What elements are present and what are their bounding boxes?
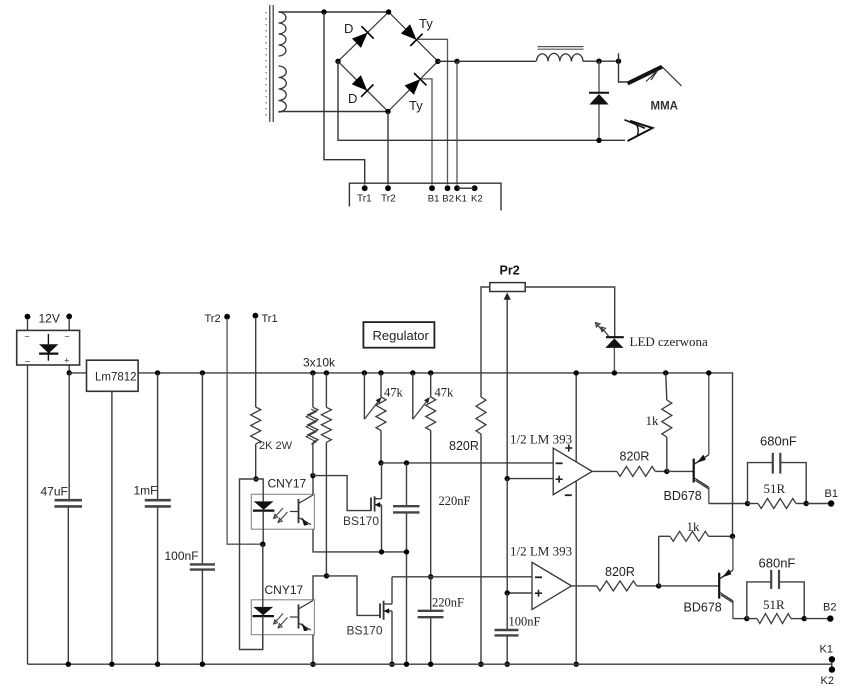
wire bridge-right to junction — [438, 60, 457, 62]
node U4 collector — [324, 573, 329, 578]
node bridge left — [335, 59, 340, 64]
wire U1A vplus — [575, 373, 577, 462]
svg-text:CNY17: CNY17 — [265, 583, 304, 597]
wire R7 to base node — [655, 470, 667, 472]
resistor R12 51R — [747, 614, 804, 624]
label B1 — [825, 488, 838, 500]
diode D2 — [352, 75, 374, 97]
svg-text:3x10k: 3x10k — [303, 356, 336, 370]
label LED czerwona — [630, 334, 709, 349]
wire U1B plus input — [507, 592, 532, 594]
wire 10k-1 bottom lead — [312, 442, 314, 475]
wire Pr2 wiper — [504, 293, 511, 479]
label 1k R8 — [646, 413, 660, 428]
wire K1-K2 link — [457, 187, 475, 189]
label CNY17 U4 — [265, 583, 304, 597]
resistor R6 820R — [476, 397, 486, 434]
node snubber1 left — [745, 501, 750, 506]
label 12V — [39, 312, 60, 326]
wire junction to Tr1 terminal — [324, 12, 365, 185]
wire 10k-1 top lead — [312, 373, 314, 407]
wire Ty2 gate to B1 — [421, 79, 432, 185]
label 820R R7 — [620, 450, 650, 464]
label 680nF C6 — [760, 434, 797, 449]
label Lm7812 — [95, 372, 137, 384]
regulator U2 Lm7812 box — [87, 360, 139, 391]
svg-text:220nF: 220nF — [432, 596, 464, 610]
regulator label box — [363, 322, 434, 348]
svg-text:B2: B2 — [442, 194, 454, 205]
label 1k R11 — [687, 519, 701, 534]
resistor R11 1k — [659, 531, 733, 541]
terminal K1 node — [454, 185, 460, 191]
diode D3 freewheel — [589, 61, 609, 140]
node output junction — [454, 59, 459, 64]
LED inside U3 — [253, 479, 275, 544]
wire bridge arm left-bottom — [338, 61, 388, 111]
svg-text:47k: 47k — [435, 386, 455, 400]
light arrows U4 — [274, 614, 288, 629]
node C7 ground — [505, 662, 510, 667]
node R6 ground — [478, 662, 483, 667]
wire R1 to node A — [255, 444, 257, 479]
node Q1 emitter rail — [706, 370, 711, 375]
svg-text:B1: B1 — [428, 194, 440, 205]
wire K1-K2 stub — [831, 657, 833, 671]
node ground 47uF — [66, 662, 71, 667]
wire M2 drain — [391, 577, 393, 604]
wire to Lm7812 input — [69, 372, 86, 374]
wire 47k-2 wiper — [412, 373, 414, 419]
node minus net 1 — [378, 460, 383, 465]
capacitor C4 220nF — [393, 463, 420, 664]
potentiometer Pr2 body — [490, 283, 525, 292]
capacitor C3 100nF — [190, 373, 215, 664]
svg-text:MMA: MMA — [651, 101, 678, 113]
wire U4 emitter down — [312, 635, 314, 665]
label K1 — [820, 644, 833, 656]
inductor L1 — [537, 47, 584, 62]
svg-text:D: D — [348, 91, 357, 106]
node Q2 base — [656, 583, 661, 588]
node snubber2 right — [802, 616, 807, 621]
resistor R2 10k — [306, 407, 318, 444]
terminal B2 node — [445, 185, 451, 191]
LED D4 czerwona — [596, 323, 624, 373]
label minus input U1B — [535, 576, 542, 578]
node module plus junction — [67, 370, 72, 375]
svg-text:Tr2: Tr2 — [381, 194, 396, 205]
node LED rail — [612, 370, 617, 375]
node top-left junction — [321, 9, 326, 14]
wire node A loop left-down — [240, 479, 263, 650]
node M1 source — [379, 549, 384, 554]
label terminal K2 — [471, 194, 483, 205]
resistor R8 1k — [662, 400, 672, 437]
resistor R4 47k — [376, 397, 386, 431]
wire U1B output — [572, 585, 597, 587]
svg-text:K2: K2 — [471, 194, 483, 205]
label MMA — [651, 101, 678, 113]
node 12V input left — [25, 314, 31, 320]
phototransistor U4 — [290, 601, 313, 632]
label terminal B1 — [428, 194, 440, 205]
wire 10k-2 top lead — [325, 373, 327, 407]
wire U3 collector up — [312, 476, 314, 495]
label BS170 M1 — [343, 514, 379, 528]
optocoupler U3 CNY17 box — [251, 494, 314, 529]
label 220nF C4 — [439, 494, 471, 508]
node B opto mid — [260, 542, 265, 547]
svg-text:47k: 47k — [384, 386, 404, 400]
node minus net 2 — [428, 574, 433, 579]
node U3 collector — [310, 473, 315, 478]
op-amp U1B 1/2 LM393 — [532, 562, 572, 609]
label 3x10k — [303, 356, 336, 370]
node electrode junction — [616, 59, 621, 64]
node A opto input — [253, 476, 258, 481]
capacitor C8 680nF — [747, 570, 804, 619]
label CNY17 U3 — [268, 477, 307, 491]
svg-text:B1: B1 — [825, 488, 838, 500]
wire M1 source — [381, 505, 383, 552]
svg-text:K2: K2 — [821, 675, 834, 686]
capacitor C2 1mF — [145, 373, 171, 664]
transformer T1 secondary — [266, 5, 286, 122]
svg-text:–: – — [25, 356, 30, 366]
wire junction to K1 terminal — [456, 61, 458, 184]
wire 12V stubs — [28, 319, 70, 331]
resistor R10 820R — [597, 581, 637, 591]
label + plus — [64, 356, 70, 367]
node rail 1mF — [155, 370, 160, 375]
node rail 47k-2 — [428, 370, 433, 375]
label Ty1 — [419, 16, 433, 31]
wire module minus to ground rail — [27, 365, 29, 664]
svg-text:220nF: 220nF — [439, 494, 471, 508]
resistor R3 10k — [321, 407, 331, 442]
label plus input U1B — [535, 590, 542, 597]
node bridge right — [435, 59, 440, 64]
resistor R5 47k — [426, 397, 436, 431]
label K2 — [821, 675, 834, 686]
label plus power U1A — [565, 445, 572, 452]
rectifier module box — [17, 330, 80, 365]
wire Q2 collector out — [733, 618, 747, 620]
node M2 source ground — [389, 662, 394, 667]
label plus input U1A — [556, 476, 563, 483]
wire M1 drain — [381, 463, 383, 499]
node output B1 — [828, 500, 834, 506]
op-amp U1A 1/2 LM393 — [553, 448, 592, 495]
node bridge bottom — [385, 109, 390, 114]
svg-text:1k: 1k — [646, 413, 660, 428]
svg-text:100nF: 100nF — [509, 615, 541, 629]
diode inside rectifier module — [39, 334, 58, 361]
svg-text:~: ~ — [25, 332, 30, 342]
svg-text:47uF: 47uF — [41, 485, 68, 499]
svg-text:BS170: BS170 — [347, 624, 383, 638]
label 1/2 LM393 U1A — [510, 432, 572, 447]
node ground 100nF — [200, 662, 205, 667]
svg-text:K1: K1 — [455, 194, 467, 205]
node Tr1 input — [253, 313, 259, 319]
node output K1 — [829, 656, 835, 662]
svg-text:Ty: Ty — [419, 16, 433, 31]
wire 1k-2 left — [658, 536, 660, 586]
node 12V input right — [66, 314, 72, 320]
svg-text:2K 2W: 2K 2W — [259, 440, 293, 452]
label 820R R10 — [605, 565, 635, 579]
wire U1A vminus — [575, 482, 577, 665]
wire Q1 collector out — [709, 503, 748, 505]
wire bridge arm bottom-right — [388, 61, 438, 111]
LED inside U4 — [253, 544, 275, 649]
label 1mF — [134, 484, 158, 498]
label 2K 2W — [259, 440, 293, 452]
svg-text:1mF: 1mF — [134, 484, 158, 498]
svg-text:820R: 820R — [620, 450, 650, 464]
terminal Tr2 node — [385, 185, 391, 191]
wire 47k-2 top lead — [430, 373, 432, 397]
wire 47k-1 bottom lead — [380, 431, 382, 463]
label B2 — [823, 602, 836, 614]
label BS170 M2 — [347, 624, 383, 638]
wire bridge-left to lower electrode — [338, 61, 625, 140]
node Tr2-LED junction — [260, 542, 265, 547]
capacitor C7 100nF — [495, 593, 519, 664]
wire transformer-top to bridge — [279, 11, 389, 13]
svg-text:LED czerwona: LED czerwona — [630, 334, 709, 349]
wire Lm7812 ground pin — [111, 391, 113, 664]
node output K2 — [829, 666, 835, 672]
node Tr2 input — [224, 314, 230, 320]
wire to B1 — [806, 503, 831, 505]
svg-text:Tr1: Tr1 — [262, 313, 278, 325]
node rail 47k-2 wiper — [410, 370, 415, 375]
svg-text:D: D — [344, 21, 353, 36]
node U1A vminus ground — [574, 662, 579, 667]
label 47uF — [41, 485, 68, 499]
wire Ty1 gate to B2 — [418, 39, 448, 184]
label terminal Tr2 — [381, 194, 396, 205]
node snubber2 left — [744, 616, 749, 621]
terminal B1 node — [429, 185, 435, 191]
wire inductor to node — [583, 60, 619, 62]
label Tr2 input — [205, 313, 221, 325]
node rail end 1k-2 — [730, 534, 735, 539]
arrow 47k-1 wiper — [364, 397, 381, 419]
label 220nF C5 — [432, 596, 464, 610]
label Pr2 — [500, 264, 520, 278]
wire Tr2 down to LED junction — [227, 319, 263, 545]
arrow 47k-2 wiper — [413, 397, 430, 419]
node freewheel junction — [596, 59, 601, 64]
svg-text:BD678: BD678 — [664, 489, 702, 503]
svg-text:1k: 1k — [687, 519, 701, 534]
phototransistor U3 — [290, 495, 313, 526]
mosfet M1 BS170 — [371, 496, 382, 511]
label 51R R12 — [763, 597, 785, 612]
svg-text:1/2 LM 393: 1/2 LM 393 — [510, 432, 572, 447]
wire U4 collector to M2 gate — [327, 576, 380, 616]
node rail 10k-2 — [324, 370, 329, 375]
node wiper U1A — [505, 476, 510, 481]
wire bridge arm left-top — [338, 12, 389, 61]
svg-text:Ty: Ty — [409, 98, 423, 113]
wire 1k-1 bottom — [666, 437, 668, 471]
resistor R9 51R — [748, 499, 807, 509]
label 820R R6 — [449, 439, 479, 453]
label 680nF C8 — [759, 556, 796, 571]
node 220nF-1 top — [404, 460, 409, 465]
wire U1A output — [592, 470, 617, 472]
wire U4 collector up — [313, 576, 327, 600]
label minus power U1A — [565, 494, 572, 496]
wire Pr2 right lead — [525, 287, 615, 337]
wire R6 to ground — [480, 434, 482, 664]
wire to B2 — [804, 618, 830, 620]
wire 47k-1 top lead — [380, 373, 382, 397]
svg-text:51R: 51R — [764, 481, 786, 496]
wire wiper down mid — [506, 479, 508, 593]
capacitor C6 680nF — [748, 453, 807, 504]
svg-text:820R: 820R — [605, 565, 635, 579]
terminal Tr1 node — [362, 185, 368, 191]
wire +12V rail — [138, 373, 732, 536]
wire Tr1 down to R1 — [255, 318, 257, 408]
label 100nF C3 — [165, 549, 199, 563]
wire 47k-1 wiper — [363, 373, 365, 419]
node rail 100nF — [200, 370, 205, 375]
label BD678 Q2 — [684, 601, 722, 615]
svg-text:Tr1: Tr1 — [357, 194, 372, 205]
terminal block box — [349, 183, 501, 210]
capacitor C5 220nF — [418, 577, 444, 664]
node wiper U1B — [505, 590, 510, 595]
thyristor Ty2 — [405, 73, 427, 95]
wire R10 to base node — [637, 585, 659, 587]
wire U3 collector to M1 gate — [313, 476, 371, 511]
wire bridge-bottom to Tr2 terminal — [387, 112, 389, 185]
label D1 — [344, 21, 353, 36]
thyristor Ty1 — [401, 24, 423, 46]
label ~ left — [25, 332, 30, 342]
label 47k R4 — [384, 386, 404, 400]
node rail 10k-1 — [310, 370, 315, 375]
label Ty2 — [409, 98, 423, 113]
svg-text:100nF: 100nF — [165, 549, 199, 563]
svg-text:BS170: BS170 — [343, 514, 379, 528]
light arrows U3 — [274, 508, 288, 523]
resistor R7 820R — [617, 466, 656, 476]
svg-text:+: + — [64, 356, 70, 367]
svg-text:Tr2: Tr2 — [205, 313, 221, 325]
svg-text:51R: 51R — [763, 597, 785, 612]
wire minus net 2 — [392, 576, 532, 578]
wire stub at electrode node — [618, 53, 620, 61]
label terminal K1 — [455, 194, 467, 205]
wire module plus down — [68, 365, 70, 373]
terminal K2 node — [472, 185, 478, 191]
svg-text:680nF: 680nF — [759, 556, 796, 571]
svg-text:Regulator: Regulator — [373, 328, 430, 343]
svg-text:12V: 12V — [39, 312, 60, 326]
node ground 1mF — [155, 662, 160, 667]
transistor Q2 BD678 — [659, 536, 734, 618]
svg-text:680nF: 680nF — [760, 434, 797, 449]
svg-text:B2: B2 — [823, 602, 836, 614]
transistor Q1 BD678 — [667, 373, 710, 504]
wire 47k-2 bottom lead — [430, 431, 432, 577]
label terminal Tr1 — [357, 194, 372, 205]
wire junction to inductor — [457, 60, 536, 62]
node ground 7812 — [109, 662, 114, 667]
node U4 emitter ground — [310, 662, 315, 667]
node 220nF-1 bottom — [404, 549, 409, 554]
wire U1A plus input — [507, 478, 553, 480]
label Regulator — [373, 328, 430, 343]
wire bridge arm top-right — [389, 12, 438, 61]
label 51R R9 — [764, 481, 786, 496]
node ground 220nF-2 — [428, 662, 433, 667]
svg-text:BD678: BD678 — [684, 601, 722, 615]
label ~ right — [65, 332, 70, 342]
electrode holder MMA upper — [619, 61, 682, 86]
wire transformer-bottom to bridge — [279, 111, 389, 113]
mosfet M2 BS170 — [380, 601, 392, 620]
wire minus net 1 — [381, 462, 553, 464]
svg-text:820R: 820R — [449, 439, 479, 453]
node U1A vplus rail — [574, 370, 579, 375]
label minus input U1A — [556, 462, 563, 464]
node freewheel bottom — [596, 138, 601, 143]
node rail 47k-1 wiper — [362, 370, 367, 375]
node bridge top — [386, 9, 391, 14]
node rail 47k-1 — [378, 370, 383, 375]
capacitor C1 47uF — [55, 373, 83, 664]
label 1/2 LM393 U1B — [510, 544, 572, 559]
wire M2 source — [391, 611, 393, 664]
label D2 — [348, 91, 357, 106]
wire 10k-2 bottom lead — [325, 442, 327, 576]
wire ground rail — [28, 663, 832, 665]
wire Pr2 left lead — [481, 287, 490, 397]
label BD678 Q1 — [664, 489, 702, 503]
wire U3 emitter down — [313, 529, 407, 552]
svg-text:1/2 LM 393: 1/2 LM 393 — [510, 544, 572, 559]
svg-text:K1: K1 — [820, 644, 833, 656]
work clamp electrode lower — [625, 120, 653, 141]
node Q1 base — [664, 469, 669, 474]
node ground 220nF-1 — [404, 662, 409, 667]
diode D1 — [352, 26, 374, 48]
node rail 1k-1 — [663, 370, 668, 375]
optocoupler U4 CNY17 box — [251, 600, 314, 635]
node output B2 — [827, 615, 833, 621]
resistor R1 2K 2W — [251, 407, 261, 444]
wire 1k-1 top — [666, 373, 667, 400]
node snubber1 right — [804, 501, 809, 506]
label 47k R5 — [435, 386, 455, 400]
label 100nF C7 — [509, 615, 541, 629]
svg-text:Lm7812: Lm7812 — [95, 372, 137, 384]
label - minus — [25, 356, 30, 366]
svg-text:CNY17: CNY17 — [268, 477, 307, 491]
label terminal B2 — [442, 194, 454, 205]
svg-text:~: ~ — [65, 332, 70, 342]
label Tr1 input — [262, 313, 278, 325]
